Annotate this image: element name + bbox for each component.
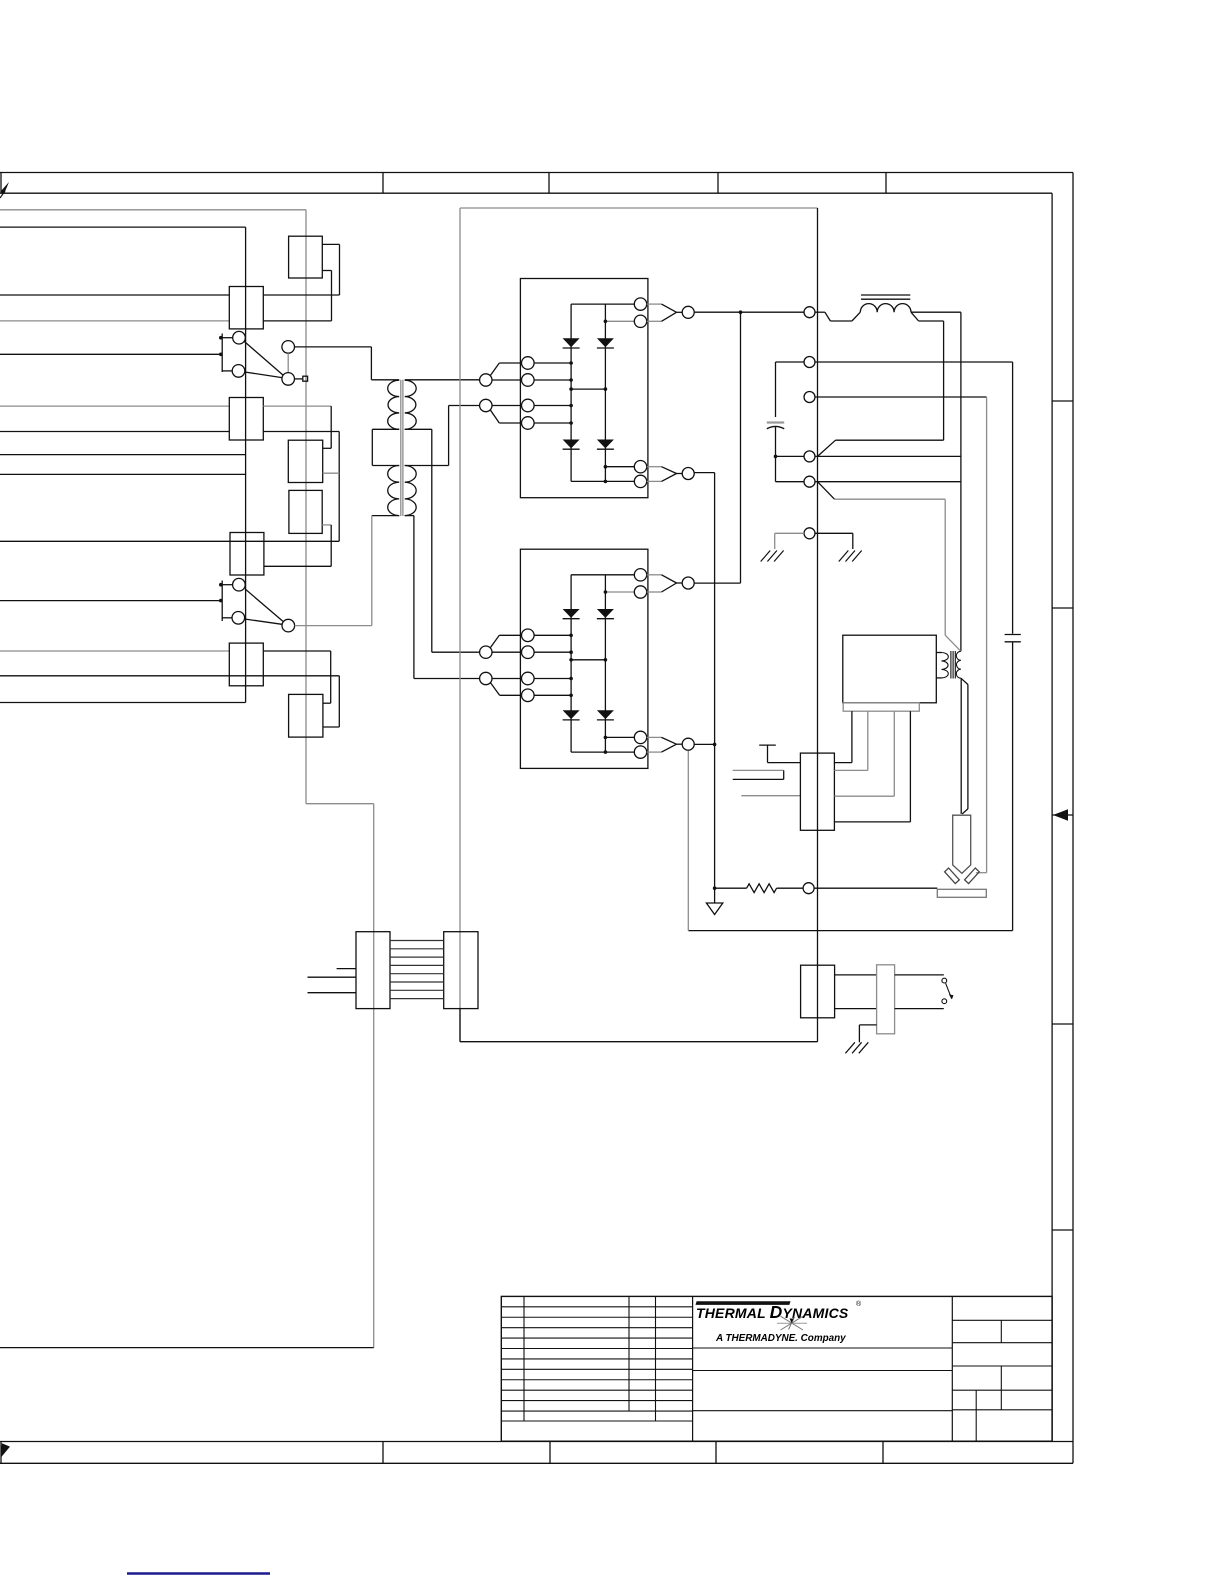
svg-text:®: ®: [856, 1300, 862, 1308]
svg-text:THERMAL DYNAMICS: THERMAL DYNAMICS: [696, 1302, 849, 1322]
svg-text:A THERMADYNE. Company: A THERMADYNE. Company: [715, 1333, 846, 1344]
